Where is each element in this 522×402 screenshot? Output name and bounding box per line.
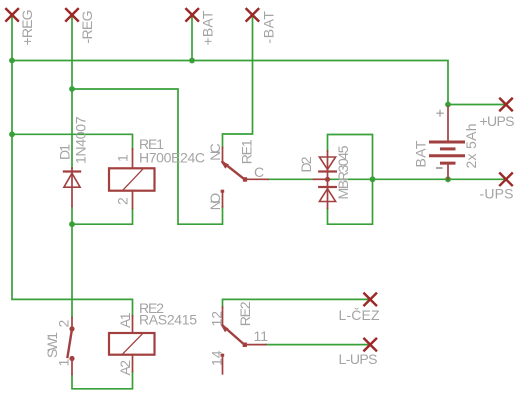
svg-text:BAT: BAT (413, 140, 429, 167)
svg-text:A1: A1 (117, 312, 133, 328)
junction node at +BAT / top bus (189, 58, 195, 64)
wire: D2 parallel loop (328, 135, 373, 225)
svg-text:+REG: +REG (19, 10, 35, 46)
svg-text:12: 12 (209, 311, 225, 327)
wire: RE2 pin12 to L-CEZ (223, 299, 371, 307)
switch SW1 (68, 318, 73, 375)
pin: D2 center stub (314, 178, 328, 180)
wire: battery plus to +UPS (448, 104, 506, 106)
svg-text:-BAT: -BAT (261, 11, 277, 44)
wire: D1 anode to RE1 pin2 bottom link (71, 207, 73, 318)
svg-text:NC: NC (207, 143, 223, 161)
junction node at battery plus (445, 102, 451, 108)
label battery plus mark (437, 110, 443, 116)
pin flag X +BAT (186, 9, 198, 21)
pin flag X +REG (6, 9, 18, 21)
svg-text:H700E24C: H700E24C (139, 150, 205, 166)
wire: bottom link RE1 pin2 (72, 209, 133, 225)
junction node at D2 common cathode (325, 177, 330, 182)
junction node at +REG / top bus (9, 58, 15, 64)
relay contact RE2 (12/11/14) (221, 307, 266, 374)
relay contact RE1 (NC/C/NO) (221, 148, 268, 208)
wire: D2 center to -UPS (328, 178, 507, 180)
wire: C contact to D2 center (268, 178, 314, 180)
relay coil RE2 (109, 316, 155, 372)
svg-text:2x 5Ah: 2x 5Ah (463, 124, 479, 169)
junction node at -REG branch (69, 86, 75, 92)
wire: +BAT pin drop (191, 15, 193, 61)
label battery minus mark (437, 167, 442, 169)
svg-text:RE2: RE2 (237, 301, 253, 326)
junction node at D2 loop / -UPS line (370, 176, 376, 182)
wire: +REG pin drop (11, 15, 13, 61)
pin flag X L-UPS (364, 339, 376, 351)
switch SW1 contact dots (69, 326, 74, 331)
wire: RE1 coil pin1 feed (12, 134, 133, 149)
wire: -REG vertical rail (71, 15, 73, 168)
wire: +REG rail down left side (12, 61, 133, 317)
junction node at battery minus (445, 176, 451, 182)
battery BAT (431, 107, 464, 180)
relay coil RE1 (109, 149, 155, 209)
svg-text:SW1: SW1 (44, 332, 60, 358)
junction node at D1 anode / RE1 pin2 / SW1 (69, 221, 75, 227)
diode D1 (64, 168, 80, 207)
svg-text:14: 14 (209, 350, 225, 366)
wire: top bus +REG to battery plus (12, 61, 448, 105)
svg-text:+BAT: +BAT (200, 10, 216, 45)
pin flag X -REG (66, 9, 78, 21)
wire: -BAT drop to NC contact (223, 15, 253, 148)
svg-text:L-UPS: L-UPS (339, 351, 378, 367)
wire: RE2 pin11 to L-UPS (266, 344, 370, 346)
wire: -REG branch to NO contact (72, 89, 223, 224)
svg-text:1: 1 (115, 154, 131, 162)
pin flag X -UPS (500, 173, 512, 185)
junction node at +REG / RE1 coil feed (9, 131, 15, 137)
svg-text:1: 1 (56, 359, 72, 367)
svg-text:2: 2 (115, 197, 131, 205)
svg-text:+UPS: +UPS (480, 113, 515, 129)
svg-text:MBR3045: MBR3045 (335, 145, 351, 199)
svg-text:2: 2 (56, 320, 72, 328)
pin flag X +UPS (500, 99, 512, 111)
svg-text:11: 11 (254, 328, 269, 344)
svg-text:1N4007: 1N4007 (73, 116, 89, 164)
svg-text:RE1: RE1 (239, 139, 255, 164)
svg-text:A2: A2 (117, 360, 133, 376)
svg-text:D2: D2 (298, 156, 314, 172)
svg-text:L-ČEZ: L-ČEZ (339, 307, 380, 323)
pin flag X -BAT (247, 9, 259, 21)
svg-text:-UPS: -UPS (480, 186, 514, 202)
wire: SW1 to RE2 coil A2 (72, 372, 133, 389)
svg-text:D1: D1 (57, 144, 73, 160)
pin flag X L-CEZ (364, 294, 376, 306)
svg-text:NO: NO (207, 193, 223, 211)
svg-text:C: C (254, 164, 264, 180)
dual diode D2 (319, 151, 336, 209)
svg-text:RAS2415: RAS2415 (139, 312, 197, 328)
svg-text:-REG: -REG (79, 11, 95, 44)
